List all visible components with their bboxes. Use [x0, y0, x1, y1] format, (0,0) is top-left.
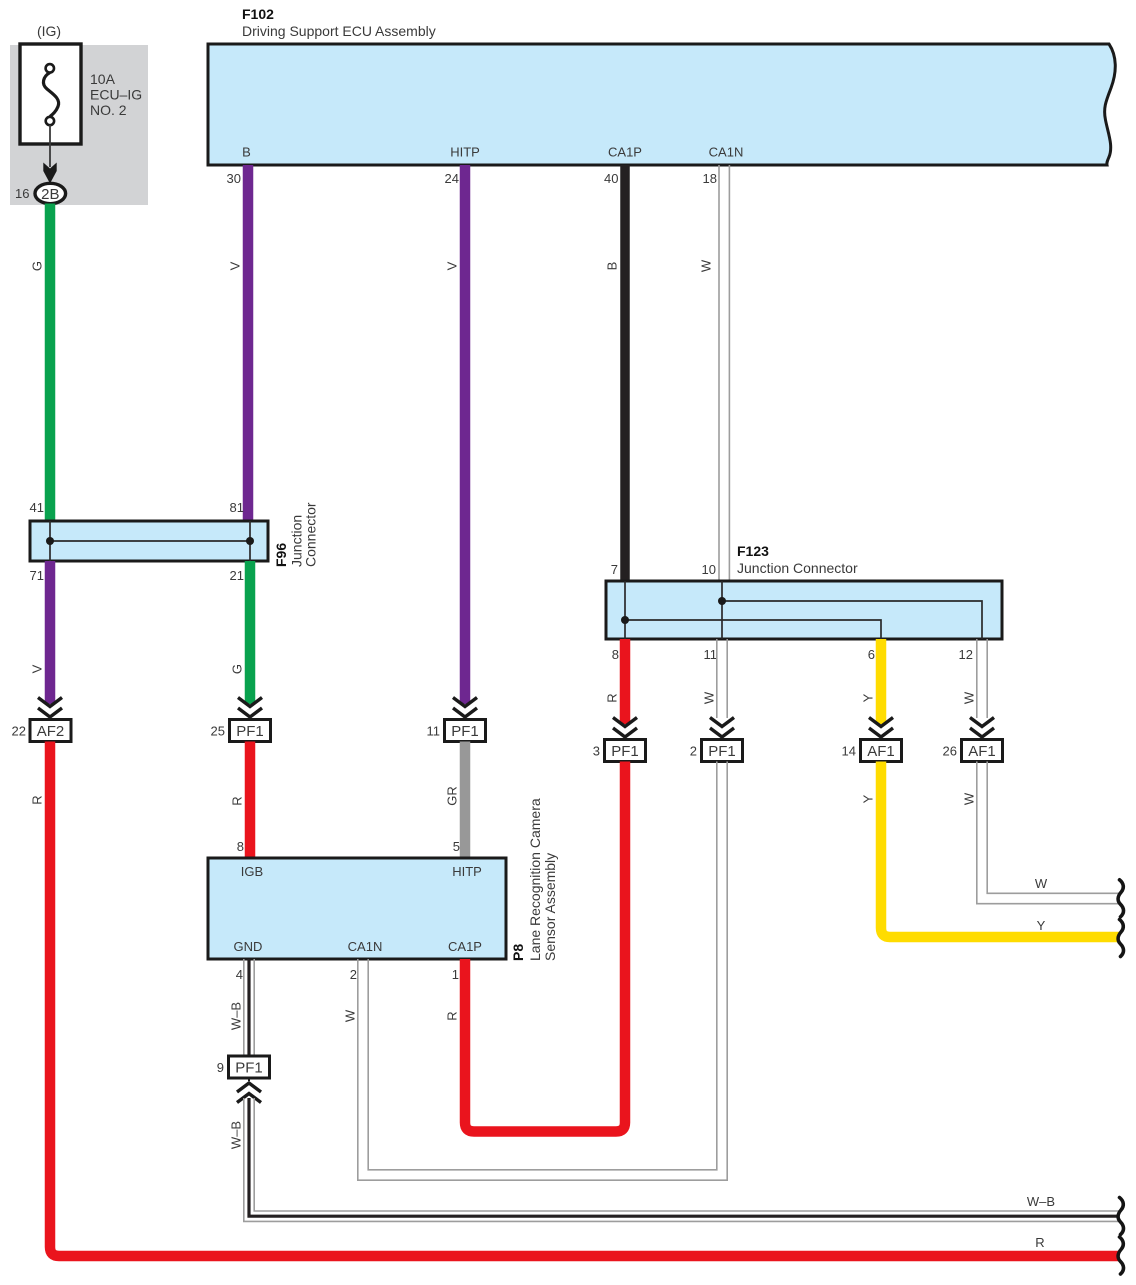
connector AF2 box [30, 720, 71, 742]
svg-text:4: 4 [236, 967, 243, 982]
svg-text:AF2: AF2 [37, 723, 65, 740]
svg-text:14: 14 [842, 744, 856, 759]
svg-text:P8: P8 [510, 944, 526, 961]
connector 2B [35, 183, 66, 203]
junction dot F96 left [46, 537, 54, 545]
svg-text:41: 41 [30, 500, 44, 515]
arrowhead into 2B [43, 163, 56, 184]
label V [445, 261, 460, 270]
pin B label [242, 145, 251, 160]
pin 81 [230, 500, 244, 515]
connector PF1 2 box [702, 740, 743, 762]
svg-text:CA1N: CA1N [709, 145, 744, 160]
svg-text:AF1: AF1 [968, 743, 996, 760]
fuse ECU-IG NO. 2 [20, 44, 142, 144]
svg-text:2B: 2B [41, 186, 59, 203]
svg-text:11: 11 [704, 647, 718, 662]
connector PF1 3 arrows [613, 718, 637, 741]
connector PF1 3 box [605, 740, 646, 762]
pin 12 [959, 647, 973, 662]
svg-text:PF1: PF1 [451, 723, 479, 740]
label R [605, 693, 620, 702]
pin 9 [217, 1060, 224, 1075]
svg-text:W: W [343, 1009, 358, 1022]
svg-text:GND: GND [234, 939, 263, 954]
wire GR from PF1 11 to P8 HITP [460, 742, 471, 859]
label V [30, 664, 45, 673]
label Y at right end [1037, 918, 1046, 933]
junction dot F123 pin7 branch [621, 616, 629, 624]
wire R from P8 CA1P to connector PF1 3 [465, 762, 625, 1132]
svg-text:22: 22 [12, 724, 26, 739]
pin 11 [704, 647, 718, 662]
connector AF1 14 box [861, 740, 902, 762]
svg-text:R: R [30, 795, 45, 804]
svg-text:Lane Recognition Camera: Lane Recognition Camera [527, 798, 543, 961]
svg-text:10A: 10A [90, 71, 116, 87]
connector AF2 arrows [38, 698, 62, 721]
svg-text:F102: F102 [242, 6, 274, 22]
svg-text:IGB: IGB [241, 864, 263, 879]
label R [445, 1011, 460, 1020]
pin CA1N label [709, 145, 744, 160]
svg-text:40: 40 [604, 171, 618, 186]
label W [699, 259, 714, 272]
pin 30 [227, 171, 241, 186]
wire Y from F123 pin 6 to connector AF1 14 [876, 639, 887, 724]
connector PF1 11 box [445, 720, 486, 742]
pin 18 [703, 171, 717, 186]
connector AF1 26 box [962, 740, 1003, 762]
connector PF1 2 arrows [710, 718, 734, 741]
connector PF1 9 arrows [237, 1078, 261, 1103]
svg-text:V: V [228, 261, 243, 270]
pin 41 [30, 500, 44, 515]
label W [962, 691, 977, 704]
svg-text:26: 26 [943, 744, 957, 759]
pin 5 HITP [453, 839, 460, 854]
svg-text:ECU–IG: ECU–IG [90, 87, 142, 103]
svg-text:12: 12 [959, 647, 973, 662]
svg-text:9: 9 [217, 1060, 224, 1075]
svg-text:2: 2 [350, 967, 357, 982]
svg-text:21: 21 [230, 568, 244, 583]
pin 11 [427, 724, 441, 739]
pin 14 [842, 744, 856, 759]
svg-text:Y: Y [1037, 918, 1046, 933]
label B [605, 262, 620, 271]
pin 22 [12, 724, 26, 739]
wire G from 2B to F96 pin 41 [45, 204, 56, 522]
label G [230, 664, 245, 674]
label W rotated [962, 792, 977, 805]
fuse panel background [10, 45, 148, 205]
label R at right end [1035, 1235, 1044, 1250]
svg-text:11: 11 [427, 724, 441, 739]
svg-text:G: G [230, 664, 245, 674]
svg-text:7: 7 [611, 562, 618, 577]
connector PF1 25 box [230, 720, 271, 742]
svg-text:W: W [1035, 876, 1048, 891]
svg-text:V: V [30, 664, 45, 673]
wire fuse to 2B [49, 125, 51, 167]
pin 6 [868, 647, 875, 662]
svg-text:16: 16 [15, 186, 29, 201]
svg-text:30: 30 [227, 171, 241, 186]
svg-text:8: 8 [237, 839, 244, 854]
junction dot F96 right [246, 537, 254, 545]
break squiggle Y [1118, 920, 1123, 957]
wire V from F102 pin 24 to connector PF1 11 [460, 165, 471, 704]
svg-text:Junction Connector: Junction Connector [737, 560, 858, 576]
pin 2 [690, 744, 697, 759]
pin 3 [593, 744, 600, 759]
svg-text:F123: F123 [737, 543, 769, 559]
svg-text:Driving Support ECU Assembly: Driving Support ECU Assembly [242, 23, 436, 39]
svg-text:R: R [1035, 1235, 1044, 1250]
junction connector F123 box [606, 581, 1002, 639]
camera assembly P8 box [208, 858, 506, 959]
svg-text:10: 10 [702, 562, 716, 577]
label V [228, 261, 243, 270]
pin CA1P label [608, 145, 642, 160]
pin 7 [611, 562, 618, 577]
break squiggle R [1118, 1237, 1123, 1274]
svg-text:V: V [445, 261, 460, 270]
wire Y from AF1 14 to right edge [881, 762, 1119, 938]
wire R from AF2 to right edge [50, 742, 1119, 1257]
svg-text:PF1: PF1 [236, 723, 264, 740]
svg-text:CA1P: CA1P [608, 145, 642, 160]
svg-text:3: 3 [593, 744, 600, 759]
label W [702, 691, 717, 704]
junction dot F123 pin10 branch [718, 597, 726, 605]
pin 25 [211, 724, 225, 739]
pin 71 [30, 568, 44, 583]
svg-text:PF1: PF1 [235, 1060, 263, 1077]
svg-text:W: W [962, 691, 977, 704]
pin 2 CA1N [350, 967, 357, 982]
svg-text:Y: Y [861, 794, 876, 803]
pin 4 GND [236, 967, 243, 982]
wire R from F123 pin 8 to connector PF1 3 [620, 639, 631, 724]
wire W from AF1 26 to right edge [977, 762, 1119, 904]
svg-text:G: G [30, 261, 45, 271]
label R lower left wire [30, 795, 45, 804]
svg-text:W–B: W–B [229, 1121, 244, 1149]
P8 designator [510, 798, 558, 961]
label Y [861, 693, 876, 702]
svg-text:F96: F96 [273, 543, 289, 567]
label W at right end [1035, 876, 1048, 891]
label W-B at right end [1027, 1194, 1055, 1209]
junction connector F96 [30, 521, 268, 561]
svg-text:25: 25 [211, 724, 225, 739]
pin 26 [943, 744, 957, 759]
svg-text:Y: Y [861, 693, 876, 702]
svg-text:GR: GR [445, 786, 460, 806]
svg-text:71: 71 [30, 568, 44, 583]
connector PF1 9 box [229, 1056, 270, 1078]
label W-B [229, 1002, 244, 1030]
svg-text:2: 2 [690, 744, 697, 759]
svg-text:B: B [242, 145, 251, 160]
wire W from F123 pin 11 to connector PF1 2 [717, 639, 727, 718]
svg-text:Sensor Assembly: Sensor Assembly [542, 853, 558, 961]
label GR [445, 786, 460, 806]
label W [343, 1009, 358, 1022]
wire G from F96 pin 21 to connector PF1 25 [245, 561, 256, 704]
label G [30, 261, 45, 271]
svg-text:CA1N: CA1N [348, 939, 383, 954]
svg-text:6: 6 [868, 647, 875, 662]
svg-text:HITP: HITP [450, 145, 480, 160]
svg-text:R: R [605, 693, 620, 702]
break squiggle W-B [1118, 1198, 1123, 1235]
wire R from PF1 25 to P8 IGB [245, 742, 256, 859]
wire W from F102 pin 18 to F123 pin 10 [719, 165, 729, 581]
ECU F102 box [208, 6, 1115, 165]
svg-text:Connector: Connector [303, 502, 319, 567]
svg-text:NO. 2: NO. 2 [90, 102, 127, 118]
svg-text:W–B: W–B [1027, 1194, 1055, 1209]
label Y rotated [861, 794, 876, 803]
svg-text:1: 1 [452, 967, 459, 982]
wire W-B from PF1 9 to right edge [244, 1098, 1119, 1221]
svg-text:W: W [702, 691, 717, 704]
svg-text:B: B [605, 262, 620, 271]
connector AF1 14 arrows [869, 718, 893, 741]
label R [230, 796, 245, 805]
wire V from F102 pin 30 to F96 pin 81 [243, 165, 254, 521]
wire B from F102 pin 40 to F123 pin 7 [620, 165, 630, 581]
wire V from F96 pin 71 to connector AF2 [45, 561, 56, 704]
pin 10 [702, 562, 716, 577]
svg-text:R: R [445, 1011, 460, 1020]
svg-text:8: 8 [612, 647, 619, 662]
svg-text:R: R [230, 796, 245, 805]
svg-text:W–B: W–B [229, 1002, 244, 1030]
svg-text:CA1P: CA1P [448, 939, 482, 954]
junction connector F123 [737, 543, 858, 576]
wire W from P8 CA1N to connector PF1 2 [358, 762, 727, 1181]
wire W from F123 pin 12 to connector AF1 26 [977, 639, 987, 718]
pin HITP label [450, 145, 480, 160]
connector AF1 26 arrows [970, 718, 994, 741]
svg-text:(IG): (IG) [37, 23, 61, 39]
svg-text:W: W [962, 792, 977, 805]
svg-text:W: W [699, 259, 714, 272]
pin 40 [604, 171, 618, 186]
connector PF1 11 arrows [453, 698, 477, 721]
pin 8 IGB [237, 839, 244, 854]
pin 21 [230, 568, 244, 583]
label W-B rotated [229, 1121, 244, 1149]
pin 8 [612, 647, 619, 662]
svg-text:HITP: HITP [452, 864, 482, 879]
svg-text:24: 24 [445, 171, 459, 186]
svg-text:18: 18 [703, 171, 717, 186]
pin 1 CA1P [452, 967, 459, 982]
pin 16 [15, 186, 29, 201]
connector PF1 25 arrows [238, 698, 262, 721]
svg-text:PF1: PF1 [708, 743, 736, 760]
F96 designator [273, 502, 319, 567]
pin 24 [445, 171, 459, 186]
svg-text:5: 5 [453, 839, 460, 854]
svg-text:PF1: PF1 [611, 743, 639, 760]
svg-text:AF1: AF1 [867, 743, 895, 760]
svg-text:81: 81 [230, 500, 244, 515]
label (IG) [37, 23, 61, 39]
break squiggle W [1118, 880, 1123, 917]
wire W-B from P8 GND to connector PF1 9 [244, 959, 254, 1056]
